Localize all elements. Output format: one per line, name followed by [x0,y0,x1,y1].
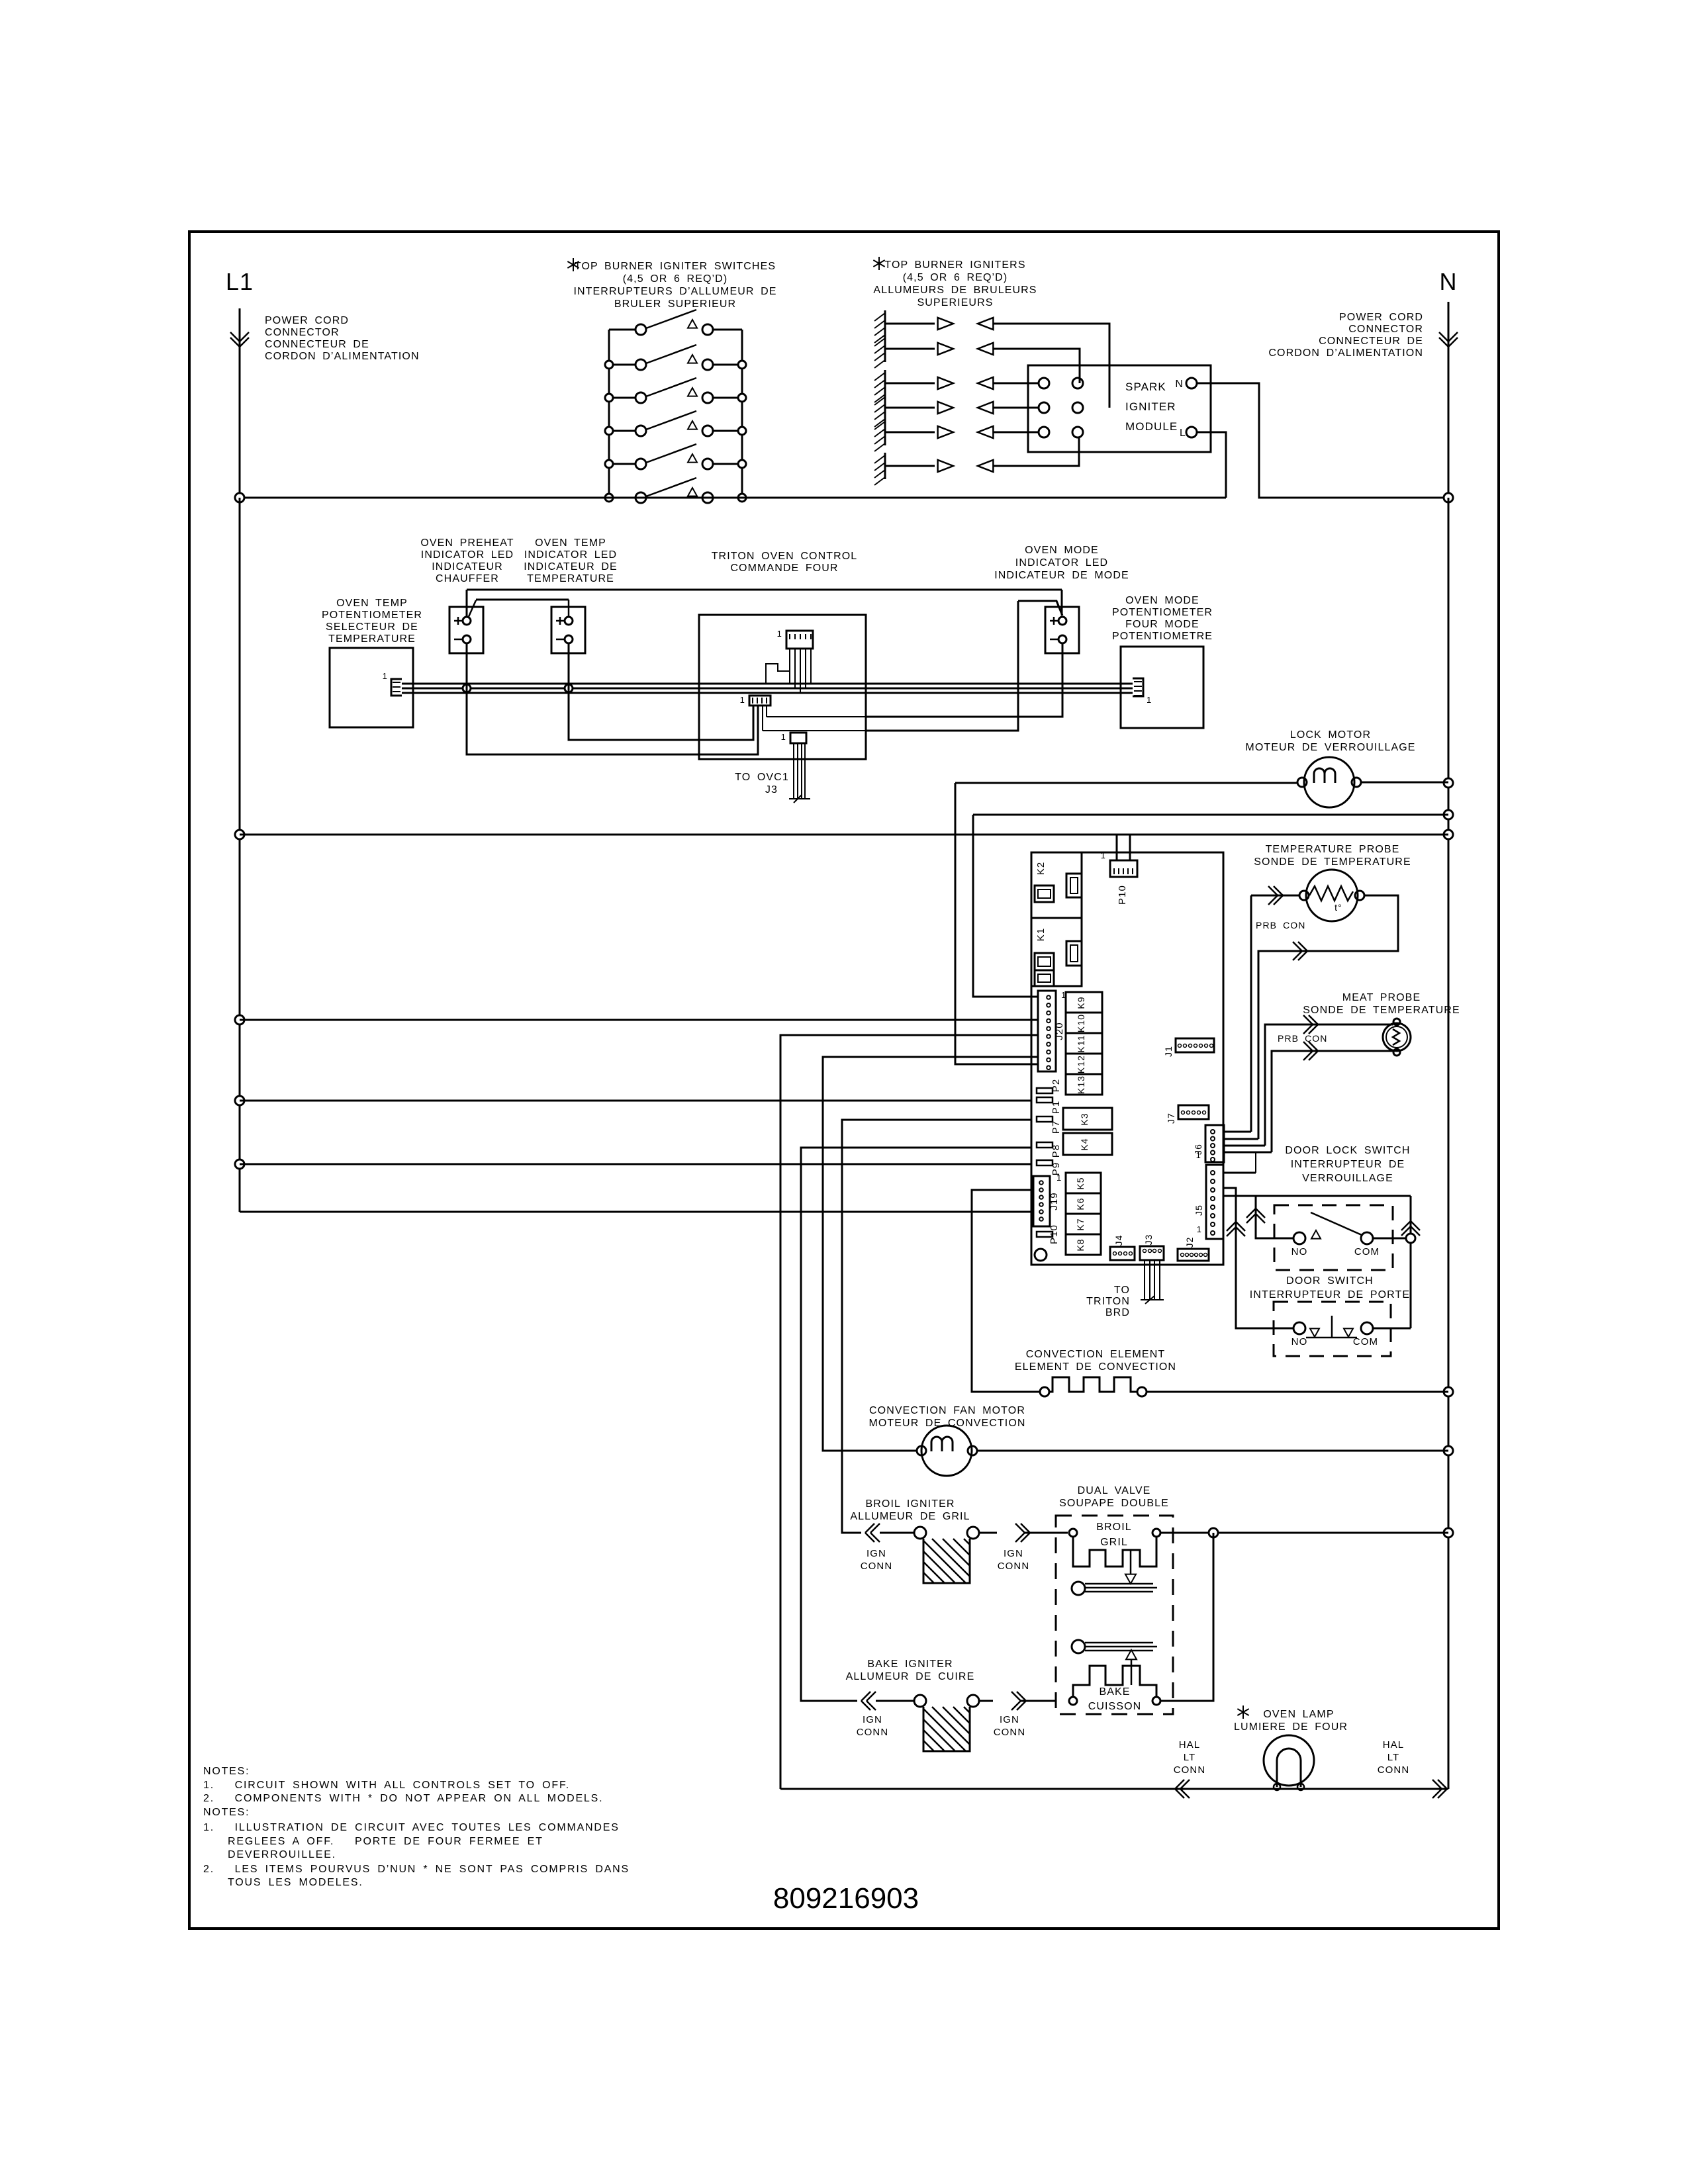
svg-text:INDICATEUR DE MODE: INDICATEUR DE MODE [994,570,1129,581]
svg-text:GRIL: GRIL [1100,1537,1128,1548]
svg-text:CONVECTION ELEMENT: CONVECTION ELEMENT [1026,1349,1166,1360]
svg-text:1: 1 [1197,1224,1202,1234]
svg-text:CUISSON: CUISSON [1088,1701,1142,1712]
svg-text:J4: J4 [1113,1235,1124,1246]
svg-text:SELECTEUR DE: SELECTEUR DE [326,621,418,633]
svg-text:P10: P10 [1049,1224,1060,1244]
svg-text:NOTES:: NOTES: [203,1807,250,1818]
svg-text:TOUS LES MODELES.: TOUS LES MODELES. [228,1877,363,1888]
svg-text:TRITON: TRITON [1086,1296,1130,1307]
svg-text:K4: K4 [1079,1138,1090,1150]
svg-text:LT: LT [1387,1752,1400,1763]
svg-text:IGN: IGN [867,1548,886,1559]
svg-text:CONNECTOR: CONNECTOR [1348,324,1423,335]
svg-text:L: L [1180,428,1186,439]
svg-text:REGLEES A OFF. PORTE DE FOUR: REGLEES A OFF. PORTE DE FOUR FERMEE ET [228,1836,543,1847]
svg-text:INDICATOR LED: INDICATOR LED [421,549,514,561]
svg-text:K3: K3 [1079,1113,1090,1125]
svg-text:INDICATEUR DE: INDICATEUR DE [524,561,618,572]
svg-text:BAKE: BAKE [1099,1686,1130,1698]
svg-text:K9: K9 [1076,996,1086,1009]
svg-text:K1: K1 [1035,928,1047,942]
svg-text:2. COMPONENTS WITH * DO NOT: 2. COMPONENTS WITH * DO NOT APPEAR ON AL… [203,1793,603,1804]
svg-text:1: 1 [777,629,782,639]
svg-text:IGN: IGN [863,1714,882,1725]
svg-text:BROIL IGNITER: BROIL IGNITER [865,1498,955,1510]
svg-text:1: 1 [740,695,745,705]
svg-text:LOCK MOTOR: LOCK MOTOR [1290,729,1371,741]
svg-text:CONN: CONN [998,1561,1030,1572]
svg-text:P10: P10 [1117,885,1128,905]
svg-text:K11: K11 [1076,1034,1086,1052]
svg-text:INDICATOR LED: INDICATOR LED [1015,557,1108,569]
svg-text:BAKE IGNITER: BAKE IGNITER [867,1659,953,1670]
svg-text:COMMANDE FOUR: COMMANDE FOUR [730,563,838,574]
svg-text:DEVERROUILLEE.: DEVERROUILLEE. [228,1849,336,1860]
svg-text:TRITON OVEN CONTROL: TRITON OVEN CONTROL [712,551,858,562]
svg-text:1. ILLUSTRATION DE CIRCUIT A: 1. ILLUSTRATION DE CIRCUIT AVEC TOUTES L… [203,1822,620,1833]
svg-text:DOOR SWITCH: DOOR SWITCH [1286,1275,1374,1287]
svg-text:J2: J2 [1184,1237,1195,1248]
svg-text:K2: K2 [1035,862,1047,876]
svg-text:INTERRUPTEUR DE: INTERRUPTEUR DE [1291,1159,1405,1170]
svg-text:SUPERIEURS: SUPERIEURS [917,297,993,308]
svg-text:DOOR LOCK SWITCH: DOOR LOCK SWITCH [1285,1145,1410,1156]
svg-text:CONN: CONN [857,1727,889,1738]
svg-text:CONNECTEUR DE: CONNECTEUR DE [1319,336,1423,347]
svg-text:VERROUILLAGE: VERROUILLAGE [1302,1173,1393,1184]
svg-text:IGNITER: IGNITER [1125,400,1176,413]
svg-text:OVEN TEMP: OVEN TEMP [336,598,408,609]
svg-text:SOUPAPE DOUBLE: SOUPAPE DOUBLE [1059,1498,1169,1509]
svg-text:OVEN LAMP: OVEN LAMP [1263,1709,1334,1720]
svg-text:POTENTIOMETER: POTENTIOMETER [322,610,422,621]
svg-text:MODULE: MODULE [1125,420,1178,433]
svg-text:ELEMENT DE CONVECTION: ELEMENT DE CONVECTION [1015,1361,1176,1373]
svg-text:J20: J20 [1054,1022,1065,1040]
svg-text:J5: J5 [1194,1205,1204,1216]
svg-text:TO OVC1: TO OVC1 [735,772,789,783]
svg-text:CONN: CONN [994,1727,1026,1738]
svg-text:NOTES:: NOTES: [203,1766,250,1777]
svg-text:BRD: BRD [1105,1307,1130,1318]
svg-text:INTERRUPTEURS D’ALLUMEUR DE: INTERRUPTEURS D’ALLUMEUR DE [573,286,776,297]
svg-text:POWER CORD: POWER CORD [1339,312,1423,323]
svg-text:CONN: CONN [1174,1764,1206,1776]
svg-text:CONNECTOR: CONNECTOR [265,327,340,338]
svg-text:NO: NO [1291,1336,1308,1347]
svg-text:J3: J3 [765,784,778,796]
svg-text:K10: K10 [1076,1014,1086,1032]
svg-text:J1: J1 [1163,1046,1174,1057]
svg-text:SPARK: SPARK [1125,381,1166,393]
svg-text:NO: NO [1291,1246,1308,1257]
svg-text:TO: TO [1114,1285,1130,1296]
svg-text:N: N [1440,268,1458,295]
svg-text:TEMPERATURE: TEMPERATURE [328,633,416,645]
svg-text:CORDON D’ALIMENTATION: CORDON D’ALIMENTATION [1268,347,1423,359]
svg-text:PRB CON: PRB CON [1256,920,1306,931]
svg-text:J3: J3 [1143,1234,1154,1246]
svg-text:OVEN TEMP: OVEN TEMP [535,537,606,549]
svg-text:MEAT PROBE: MEAT PROBE [1342,992,1421,1003]
svg-text:K6: K6 [1075,1197,1086,1210]
svg-text:K5: K5 [1075,1177,1086,1189]
svg-text:K8: K8 [1075,1238,1086,1251]
svg-text:ALLUMEURS DE BRULEURS: ALLUMEURS DE BRULEURS [873,285,1037,296]
svg-text:t°: t° [1335,902,1342,913]
svg-text:TEMPERATURE: TEMPERATURE [527,573,614,584]
svg-text:BROIL: BROIL [1096,1522,1132,1533]
svg-text:TEMPERATURE PROBE: TEMPERATURE PROBE [1266,844,1400,855]
svg-text:MOTEUR DE CONVECTION: MOTEUR DE CONVECTION [868,1418,1025,1429]
svg-text:1: 1 [1196,1150,1201,1160]
svg-text:809216903: 809216903 [773,1882,919,1915]
svg-text:K13: K13 [1076,1075,1086,1094]
svg-text:POTENTIOMETRE: POTENTIOMETRE [1112,631,1213,642]
svg-text:L1: L1 [226,268,254,295]
svg-text:1: 1 [1101,850,1106,860]
svg-text:TOP BURNER IGNITERS: TOP BURNER IGNITERS [884,259,1025,271]
svg-text:(4,5 OR 6 REQ’D): (4,5 OR 6 REQ’D) [623,273,728,285]
svg-text:MOTEUR DE VERROUILLAGE: MOTEUR DE VERROUILLAGE [1245,742,1415,753]
svg-text:TOP BURNER IGNITER SWITCHES: TOP BURNER IGNITER SWITCHES [575,261,776,272]
svg-text:CONN: CONN [861,1561,893,1572]
svg-text:1: 1 [383,671,388,681]
svg-text:1. CIRCUIT SHOWN WITH ALL CO: 1. CIRCUIT SHOWN WITH ALL CONTROLS SET T… [203,1780,570,1791]
svg-text:OVEN PREHEAT: OVEN PREHEAT [420,537,514,549]
svg-text:ALLUMEUR DE GRIL: ALLUMEUR DE GRIL [850,1511,970,1522]
svg-text:SONDE DE TEMPERATURE: SONDE DE TEMPERATURE [1254,856,1411,868]
svg-text:1: 1 [781,732,786,742]
svg-text:SONDE DE TEMPERATURE: SONDE DE TEMPERATURE [1303,1005,1460,1016]
svg-text:CONNECTEUR DE: CONNECTEUR DE [265,339,369,350]
svg-text:ALLUMEUR DE CUIRE: ALLUMEUR DE CUIRE [846,1671,975,1682]
svg-text:HAL: HAL [1383,1739,1404,1751]
svg-text:K12: K12 [1076,1055,1086,1073]
svg-text:HAL: HAL [1179,1739,1200,1751]
svg-text:CONN: CONN [1378,1764,1410,1776]
svg-text:DUAL VALVE: DUAL VALVE [1078,1485,1151,1496]
svg-text:J7: J7 [1166,1113,1176,1124]
svg-text:1: 1 [1056,1173,1062,1183]
svg-text:N: N [1175,379,1184,390]
svg-text:OVEN MODE: OVEN MODE [1025,545,1099,556]
svg-text:P1: P1 [1051,1101,1062,1115]
svg-text:COM: COM [1354,1246,1380,1257]
svg-text:POTENTIOMETER: POTENTIOMETER [1112,607,1213,618]
svg-text:CORDON D’ALIMENTATION: CORDON D’ALIMENTATION [265,351,420,362]
svg-text:1: 1 [1147,695,1152,705]
svg-text:OVEN MODE: OVEN MODE [1125,595,1199,606]
svg-text:COM: COM [1353,1336,1378,1347]
svg-text:2. LES ITEMS POURVUS D’NUN *: 2. LES ITEMS POURVUS D’NUN * NE SONT PAS… [203,1864,630,1875]
svg-text:IGN: IGN [1004,1548,1023,1559]
svg-text:PRB CON: PRB CON [1278,1033,1328,1044]
svg-text:POWER CORD: POWER CORD [265,315,349,326]
svg-text:P8: P8 [1051,1144,1062,1158]
svg-text:INDICATEUR: INDICATEUR [432,561,503,572]
svg-text:P7: P7 [1051,1120,1062,1134]
svg-text:LUMIERE DE FOUR: LUMIERE DE FOUR [1234,1721,1348,1733]
svg-text:P2: P2 [1051,1079,1062,1093]
svg-text:K7: K7 [1075,1218,1086,1230]
svg-text:IGN: IGN [1000,1714,1019,1725]
svg-text:INDICATOR LED: INDICATOR LED [524,549,617,561]
svg-text:CHAUFFER: CHAUFFER [436,573,499,584]
svg-text:(4,5 OR 6 REQ’D): (4,5 OR 6 REQ’D) [903,272,1008,283]
svg-text:INTERRUPTEUR DE PORTE: INTERRUPTEUR DE PORTE [1250,1289,1410,1300]
svg-text:BRULER SUPERIEUR: BRULER SUPERIEUR [614,298,736,310]
svg-text:FOUR MODE: FOUR MODE [1125,619,1199,630]
svg-text:CONVECTION FAN MOTOR: CONVECTION FAN MOTOR [869,1405,1025,1416]
svg-text:LT: LT [1184,1752,1196,1763]
svg-text:J19: J19 [1049,1192,1060,1210]
